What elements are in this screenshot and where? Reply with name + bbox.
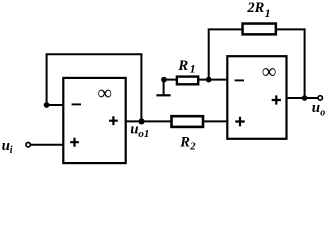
svg-text:2R: 2R <box>246 0 264 16</box>
svg-text:∞: ∞ <box>97 83 112 105</box>
svg-text:1: 1 <box>190 62 196 76</box>
svg-text:o1: o1 <box>138 128 149 140</box>
svg-text:R: R <box>177 58 188 74</box>
svg-text:o: o <box>320 108 325 119</box>
svg-text:u: u <box>130 121 138 137</box>
svg-text:R: R <box>179 134 190 150</box>
svg-text:u: u <box>2 138 10 154</box>
svg-text:u: u <box>312 100 320 116</box>
svg-text:i: i <box>10 145 13 156</box>
svg-text:2: 2 <box>189 141 196 152</box>
svg-text:∞: ∞ <box>262 61 277 83</box>
svg-text:1: 1 <box>265 6 271 20</box>
